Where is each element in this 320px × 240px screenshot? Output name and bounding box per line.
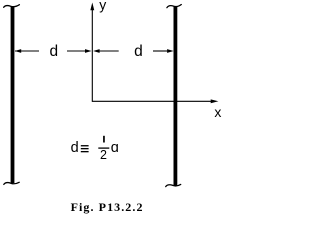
svg-text:d: d — [71, 140, 79, 156]
svg-text:ɑ: ɑ — [111, 140, 119, 156]
svg-text:2: 2 — [100, 148, 107, 162]
svg-text:d: d — [50, 43, 59, 60]
svg-text:d: d — [134, 43, 143, 60]
svg-text:x: x — [214, 104, 221, 120]
svg-text:y: y — [99, 0, 106, 13]
svg-text:Fig. P13.2.2: Fig. P13.2.2 — [71, 200, 144, 214]
